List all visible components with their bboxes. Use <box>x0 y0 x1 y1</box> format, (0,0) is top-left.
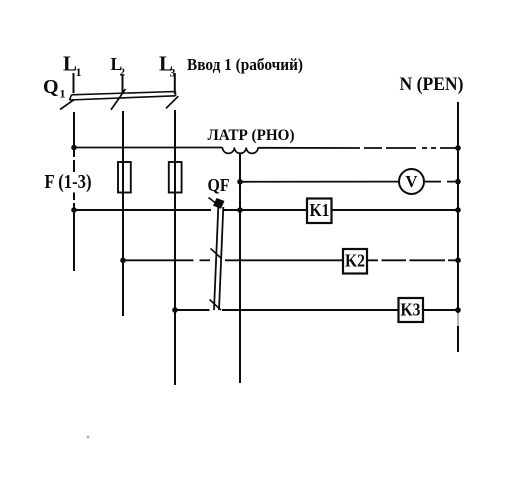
wire K3 line <box>175 309 458 311</box>
autotransformer ЛАТР coil <box>223 148 259 154</box>
fuse F2 <box>118 162 131 193</box>
junction dot L1-K1 <box>71 207 77 213</box>
switch Q1 blade pole 3 <box>166 96 178 108</box>
junction dot L3-K3 <box>172 307 178 313</box>
svg-text:N (PEN): N (PEN) <box>400 74 464 95</box>
stray speck <box>87 436 90 439</box>
wire L3 stub <box>174 73 176 94</box>
node L3 label <box>159 52 176 80</box>
svg-text:Ввод 1 (рабочий): Ввод 1 (рабочий) <box>187 55 303 74</box>
svg-text:Q: Q <box>43 76 59 98</box>
wire L1 stub <box>73 73 75 93</box>
switch Q1 (3-pole disconnector bar) <box>70 92 176 101</box>
junction dot L2-K2 <box>120 258 126 264</box>
breaker QF blade pole 3 <box>210 300 222 311</box>
breaker QF linkage double bar <box>214 207 223 310</box>
svg-text:K1: K1 <box>310 200 330 220</box>
contactor coil K2 <box>343 249 367 274</box>
svg-text:F (1-3): F (1-3) <box>45 171 92 193</box>
junction dot N-K1 <box>455 207 461 213</box>
wire voltmeter line <box>240 181 458 183</box>
wire L2 stub <box>122 74 124 93</box>
node L1 label <box>63 52 82 80</box>
breaker QF flag <box>209 198 225 209</box>
voltmeter V <box>399 169 424 194</box>
wire phase L2 vertical <box>122 111 124 316</box>
contactor coil K3 <box>399 298 424 322</box>
junction dot N-Vline <box>455 179 461 185</box>
switch Q1 blade pole 2 <box>111 89 126 110</box>
junction dot N-K2 <box>455 258 461 264</box>
junction dot wiper-K1 <box>237 207 243 213</box>
junction dot wiper-Vline <box>237 179 243 185</box>
svg-text:K3: K3 <box>401 299 421 319</box>
wire K1 line <box>74 209 458 211</box>
breaker QF blade pole 2 <box>211 249 222 259</box>
svg-text:1: 1 <box>76 65 82 79</box>
fuse F3 <box>169 162 182 193</box>
svg-text:QF: QF <box>208 175 230 195</box>
node L2 label <box>111 54 126 79</box>
wire phase L3 vertical <box>174 110 176 385</box>
junction dot L1-bus <box>71 145 77 151</box>
svg-text:V: V <box>406 172 418 191</box>
switch Q1 label <box>43 76 66 101</box>
svg-text:ЛАТР (РНО): ЛАТР (РНО) <box>208 127 295 144</box>
wire N (PEN) vertical <box>457 102 459 352</box>
wire phase L1 vertical <box>73 112 75 271</box>
contactor coil K1 <box>307 199 332 224</box>
junction dot N-bus <box>455 145 461 151</box>
wire autotransformer wiper vertical <box>239 154 241 383</box>
wire bus L1-to-N horizontal <box>74 147 458 150</box>
switch Q1 blade pole 1 <box>60 100 74 110</box>
svg-text:K2: K2 <box>345 250 365 270</box>
svg-text:1: 1 <box>60 87 66 101</box>
junction dot N-K3 <box>455 307 461 313</box>
wire K2 line <box>123 259 458 261</box>
